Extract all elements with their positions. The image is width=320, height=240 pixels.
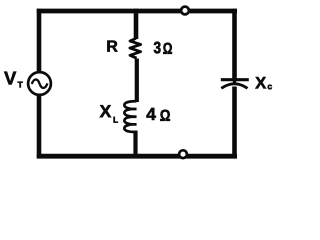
wire middle top (top rail to resistor)	[134, 9, 139, 39]
terminal node top	[181, 7, 189, 15]
wire top rail	[37, 9, 237, 14]
capacitor XC bottom curved plate	[221, 84, 247, 89]
wire left top (source to top rail)	[37, 9, 42, 72]
label X of XL	[100, 105, 111, 117]
terminal node bottom	[179, 150, 187, 158]
label V of VT	[4, 72, 16, 85]
wire middle mid (resistor to inductor)	[135, 59, 139, 103]
inductor XL coil	[124, 101, 136, 132]
label R	[107, 41, 117, 52]
wire right top (top rail to capacitor)	[232, 9, 237, 80]
resistor R zigzag	[130, 38, 141, 58]
source VT sine symbol	[32, 79, 48, 87]
wire bottom rail	[37, 154, 237, 159]
wire left bottom (source to bottom rail)	[37, 96, 42, 159]
value 3 of 3 ohm	[154, 42, 161, 54]
label X of XC	[255, 77, 266, 88]
label c subscript of XC	[268, 85, 272, 90]
capacitor XC top plate	[221, 78, 249, 81]
source VT circle	[28, 72, 51, 95]
wire middle bottom (inductor to bottom rail)	[133, 131, 137, 159]
value ohm of 4 ohm	[160, 110, 170, 121]
capacitor XC stub through top plate	[233, 80, 236, 85]
value ohm of 3 ohm	[163, 43, 172, 54]
label T subscript of VT	[18, 82, 23, 88]
wire right bottom (capacitor to bottom rail)	[232, 87, 237, 159]
value 4 of 4 ohm	[146, 108, 155, 120]
label L subscript of XL	[114, 117, 118, 123]
